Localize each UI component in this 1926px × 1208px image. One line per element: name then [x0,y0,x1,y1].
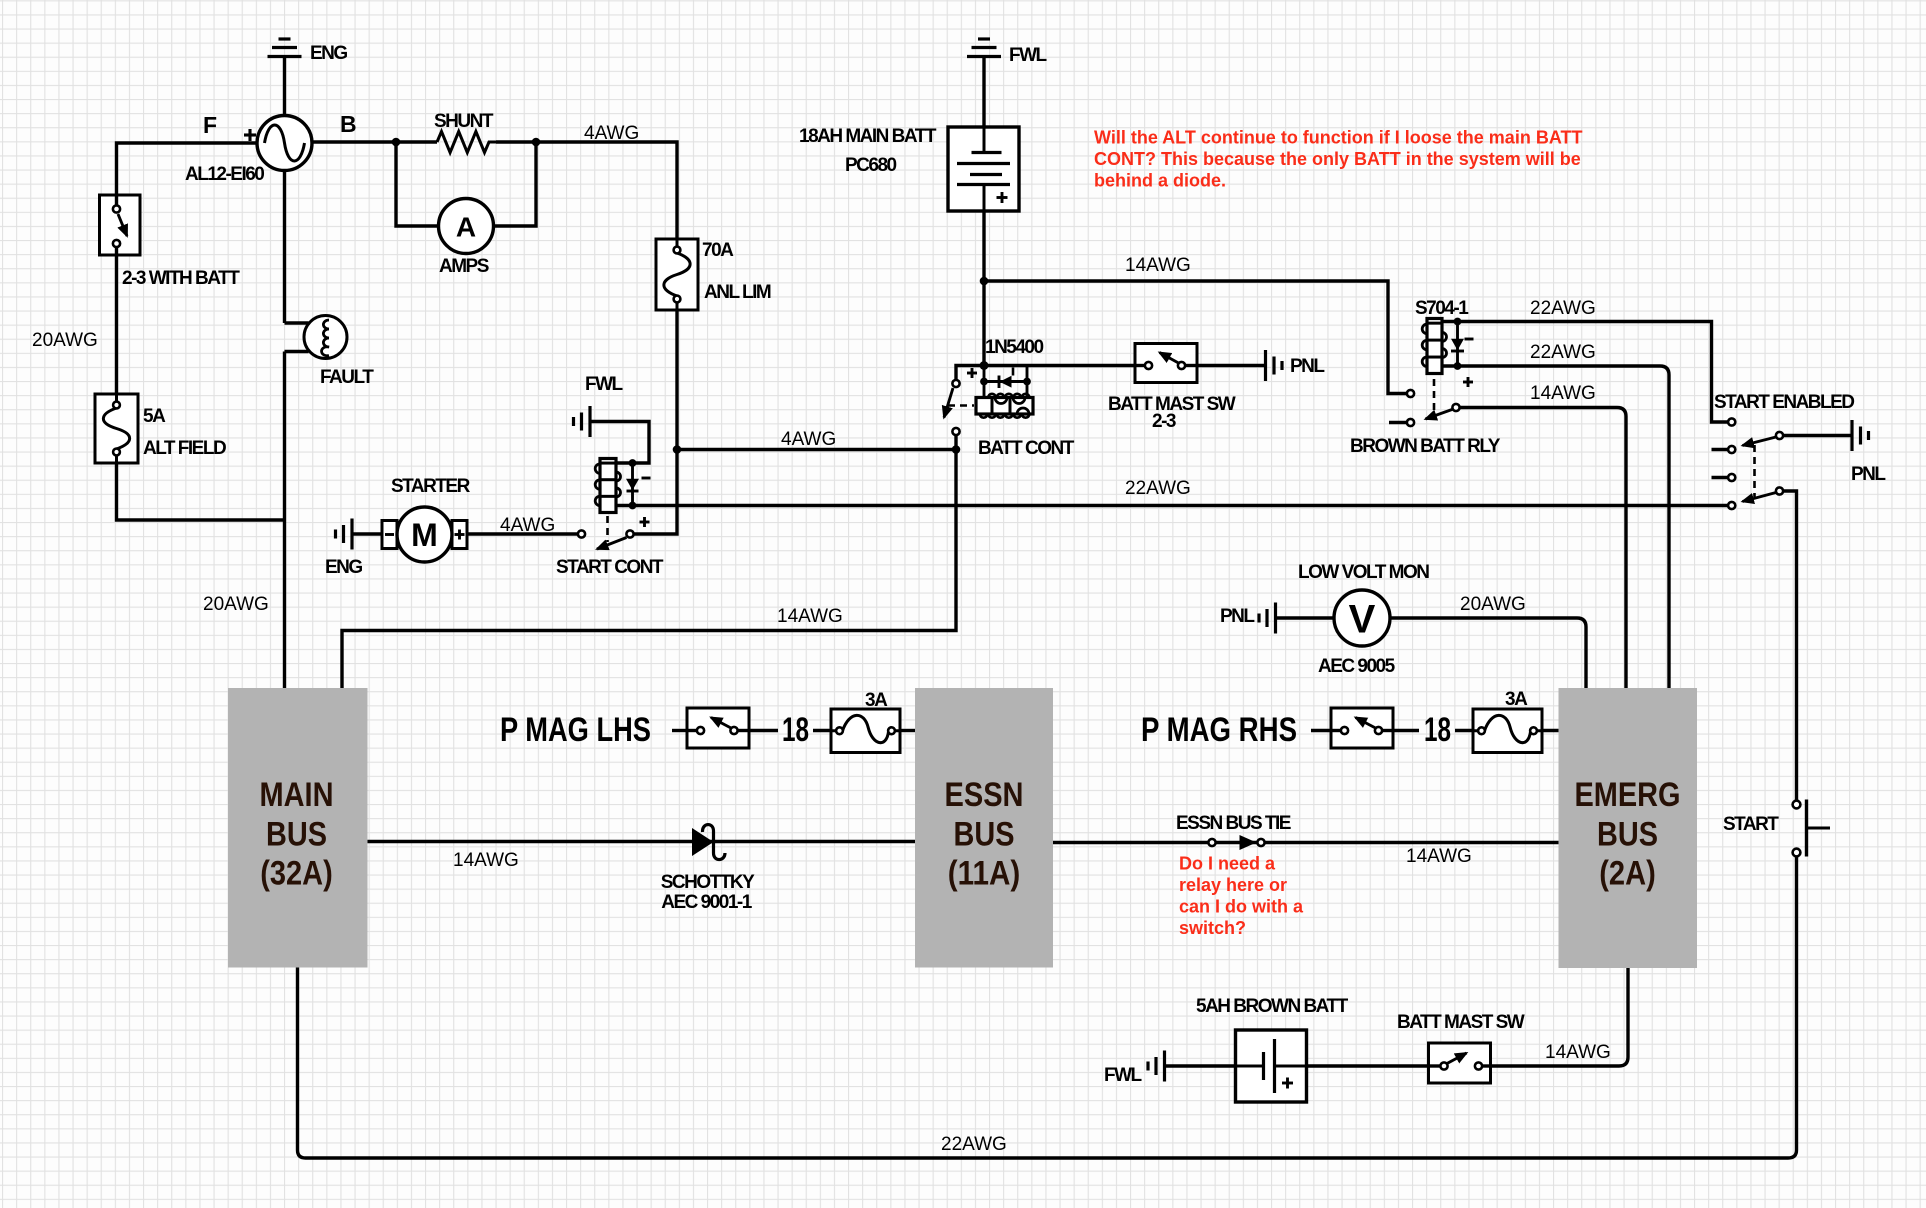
svg-text:AMPS: AMPS [439,256,489,277]
svg-text:PNL: PNL [1851,464,1886,485]
svg-text:EMERG: EMERG [1575,776,1681,814]
wire BROWN BATT RLY to EMERG BUS, 14AWG [1460,383,1626,688]
wire FWL ground to START CONT coil [590,422,649,464]
wire FAULT to MAIN BUS, 20AWG [203,352,285,689]
wire brown batt to BATT MAST SW [1307,1064,1429,1067]
svg-text:ANL LIM: ANL LIM [704,282,771,303]
svg-text:2-3 WITH BATT: 2-3 WITH BATT [122,268,240,289]
wire alternator bottom to FAULT [283,171,286,324]
voltmeter LOW VOLT MON AEC 9005 [1298,562,1429,677]
svg-text:behind a diode.: behind a diode. [1094,170,1226,190]
svg-text:22AWG: 22AWG [1530,298,1596,319]
svg-text:18: 18 [782,711,809,749]
svg-text:BUS: BUS [266,816,327,854]
wire P MAG RHS stub [1311,729,1331,732]
svg-text:CONT? This because the only BA: CONT? This because the only BATT in the … [1094,149,1581,169]
svg-text:ESSN: ESSN [945,776,1024,814]
annotation red question 2 [1179,854,1304,939]
wire START ENABLED arm2 to START button [1783,491,1797,800]
diode across START CONT coil [626,459,651,527]
wire voltmeter to EMERG BUS, 20AWG [1390,594,1586,688]
diode SCHOTTKY AEC 9001-1 [661,825,755,913]
battery 18AH MAIN BATT PC680 [799,126,1019,211]
svg-text:START: START [1723,814,1779,835]
svg-text:14AWG: 14AWG [1125,255,1191,276]
node EMERG BUS [1559,688,1698,968]
svg-text:14AWG: 14AWG [1545,1042,1611,1063]
node shunt right junction [532,138,541,147]
svg-text:3A: 3A [865,690,888,711]
ammeter AMPS [439,199,494,278]
wire 18 to fuse [813,729,831,732]
svg-text:14AWG: 14AWG [453,850,519,871]
svg-text:P MAG RHS: P MAG RHS [1141,711,1297,749]
indicator FAULT [285,316,375,389]
wire MAIN BUS to ESSN BUS, 14AWG [368,842,916,872]
wire starter to START CONT contact, 4AWG [467,515,578,536]
svg-text:F: F [203,112,217,138]
svg-text:5A: 5A [143,406,166,427]
wire ground to battery [982,57,985,128]
svg-text:S704-1: S704-1 [1415,298,1469,319]
svg-text:P MAG LHS: P MAG LHS [500,711,651,749]
mechanical link START CONT [606,516,609,542]
diode 1N5400 across BATT CONT coil [980,337,1043,398]
svg-text:22AWG: 22AWG [1530,342,1596,363]
switch START ENABLED [1712,392,1855,509]
switch BATT MAST SW 2-3 [1108,344,1236,433]
ground PNL (batt mast sw) [1266,350,1326,381]
contact START CONT [556,530,664,578]
svg-text:(11A): (11A) [948,855,1021,893]
svg-text:ALT FIELD: ALT FIELD [143,438,226,459]
svg-text:FWL: FWL [1104,1065,1143,1086]
mechanical link S704-1 [1433,379,1436,414]
svg-text:1N5400: 1N5400 [985,337,1043,358]
wire BATT MAST SW to EMERG BUS, 14AWG [1491,968,1629,1066]
diode across S704-1 coil [1451,318,1474,387]
svg-text:A: A [456,212,476,243]
node MAIN BUS [228,688,368,968]
relay coil S704-1 [1415,298,1469,374]
wire alternator B to shunt [312,140,437,143]
fuse 3A (LHS) [831,690,900,753]
fuse 70A ANL LIM [656,239,771,310]
svg-text:AEC 9001-1: AEC 9001-1 [661,892,752,913]
node 4AWG junction at ANL line [673,445,682,454]
wire switch to ALT FIELD fuse, 20AWG [32,255,117,394]
svg-text:STARTER: STARTER [391,476,471,497]
svg-text:BROWN BATT RLY: BROWN BATT RLY [1350,436,1501,457]
wire 14AWG battery to BROWN BATT RLY [984,255,1407,394]
annotation red question 1 [1094,127,1582,190]
svg-text:BUS: BUS [954,816,1015,854]
wire START CONT coil to START ENABLED, 22AWG [616,478,1728,506]
wire START ENABLED arm to PNL ground [1783,434,1852,437]
svg-text:B: B [340,111,357,137]
wire 18 to fuse (RHS) [1455,729,1473,732]
node ESSN BUS [915,688,1053,968]
svg-text:(32A): (32A) [260,855,333,893]
svg-text:BATT CONT: BATT CONT [978,438,1075,459]
svg-text:relay here or: relay here or [1179,875,1287,895]
wire ENG ground to alternator [283,57,286,117]
svg-text:FWL: FWL [585,374,624,395]
wire S704-1 top to START ENABLED, 22AWG [1442,298,1728,422]
svg-text:(2A): (2A) [1599,855,1656,893]
svg-text:18: 18 [1424,711,1451,749]
wire ANL LIM down to START CONT contact [634,310,677,534]
ground PNL (start enabled) [1851,420,1886,485]
relay contact BROWN BATT RLY [1350,390,1501,457]
svg-text:PC680: PC680 [845,155,897,176]
svg-text:AEC 9005: AEC 9005 [1318,656,1396,677]
svg-text:SCHOTTKY: SCHOTTKY [661,872,755,893]
wire ESSN BUS to EMERG BUS, 14AWG [1053,843,1559,868]
node below BATT CONT contact [952,445,961,454]
wire MAIN BUS bottom rail to START button, 22AWG [298,857,1797,1159]
battery 5AH BROWN BATT [1196,996,1349,1102]
svg-text:switch?: switch? [1179,918,1246,938]
wire BATT CONT to MAIN BUS, 14AWG [342,435,956,688]
svg-text:20AWG: 20AWG [203,594,269,615]
svg-text:BUS: BUS [1597,816,1658,854]
switch 2-3 WITH BATT [100,195,241,289]
switch P MAG RHS [1331,708,1393,748]
svg-text:4AWG: 4AWG [584,123,639,144]
ground PNL (low volt mon) [1220,603,1276,634]
svg-text:2-3: 2-3 [1152,411,1176,432]
svg-text:4AWG: 4AWG [500,515,555,536]
switch P MAG LHS [687,708,749,748]
svg-text:14AWG: 14AWG [777,606,843,627]
svg-text:70A: 70A [702,240,734,261]
svg-text:14AWG: 14AWG [1406,846,1472,867]
svg-text:20AWG: 20AWG [32,330,98,351]
svg-text:ESSN BUS TIE: ESSN BUS TIE [1176,813,1291,834]
wire switch to 18 [749,729,778,732]
switch BATT MAST SW (brown batt) [1397,1012,1525,1083]
wire ground to brown batt [1165,1064,1236,1067]
ground FWL (brown batt) [1104,1051,1165,1087]
resistor SHUNT [434,111,496,153]
node shunt left junction [392,138,401,147]
svg-text:14AWG: 14AWG [1530,383,1596,404]
node battery 14AWG junction [980,277,989,286]
ground FWL (main battery) [967,39,1048,66]
wire BATT CONT to BATT MAST SW [984,364,1135,367]
node BATT CONT top junction [980,361,989,370]
wire 4AWG to BATT CONT [677,429,956,450]
svg-text:PNL: PNL [1290,356,1325,377]
wire P MAG LHS stub [672,729,687,732]
wire ammeter branch left [396,142,438,226]
svg-text:ENG: ENG [310,43,347,64]
fuse 5A ALT FIELD [95,394,226,463]
svg-text:MAIN: MAIN [260,776,334,814]
svg-text:FWL: FWL [1009,45,1048,66]
svg-text:AL12-EI60: AL12-EI60 [185,164,264,185]
fuse 3A (RHS) [1473,689,1542,753]
ground ENG (starter) [325,519,362,579]
wire BATT MAST SW to PNL ground [1197,364,1266,367]
wire ammeter branch right [494,142,536,226]
svg-text:BATT MAST SW: BATT MAST SW [1397,1012,1525,1033]
wire S704-1 bottom to EMERG BUS, 22AWG [1442,342,1669,688]
svg-text:SHUNT: SHUNT [434,111,494,132]
wire switch to 18 (RHS) [1393,729,1419,732]
svg-text:FAULT: FAULT [320,367,374,388]
svg-text:M: M [411,517,438,553]
wire ground to starter [352,532,382,535]
svg-text:Will the ALT continue to funct: Will the ALT continue to function if I l… [1094,127,1582,147]
wire battery to BATT CONT [982,211,985,366]
wire alternator F to field switch [117,143,258,195]
svg-text:START ENABLED: START ENABLED [1714,392,1854,413]
svg-text:ENG: ENG [325,557,362,578]
svg-text:Do I need a: Do I need a [1179,854,1276,874]
wire PNL ground to voltmeter [1276,616,1335,619]
svg-text:START CONT: START CONT [556,557,664,578]
svg-text:22AWG: 22AWG [941,1134,1007,1155]
svg-text:20AWG: 20AWG [1460,594,1526,615]
wire fuse to EMERG BUS [1542,729,1559,732]
svg-text:4AWG: 4AWG [781,429,836,450]
wire fuse to ESSN BUS [900,729,915,732]
wire ALT FIELD fuse to main bus riser [117,463,285,520]
svg-text:3A: 3A [1505,689,1528,710]
svg-text:LOW VOLT MON: LOW VOLT MON [1298,562,1429,583]
pushbutton START [1723,800,1830,857]
svg-text:can I do with a: can I do with a [1179,897,1304,917]
svg-text:5AH BROWN BATT: 5AH BROWN BATT [1196,996,1349,1017]
svg-text:V: V [1349,598,1376,642]
svg-text:18AH MAIN BATT: 18AH MAIN BATT [799,126,937,147]
ground FWL (start cont) [574,374,624,437]
wire shunt to ANL LIM fuse, 4AWG [496,123,677,239]
contactor coil START CONT [595,459,620,513]
svg-text:22AWG: 22AWG [1125,478,1191,499]
alternator AL12-EI60 [185,111,357,185]
svg-text:PNL: PNL [1220,606,1255,627]
connector ESSN BUS TIE [1176,813,1291,850]
coil BATT CONT [976,394,1033,418]
ground ENG (alternator) [268,39,348,64]
contactor BATT CONT [944,366,1075,460]
motor STARTER [382,476,471,562]
